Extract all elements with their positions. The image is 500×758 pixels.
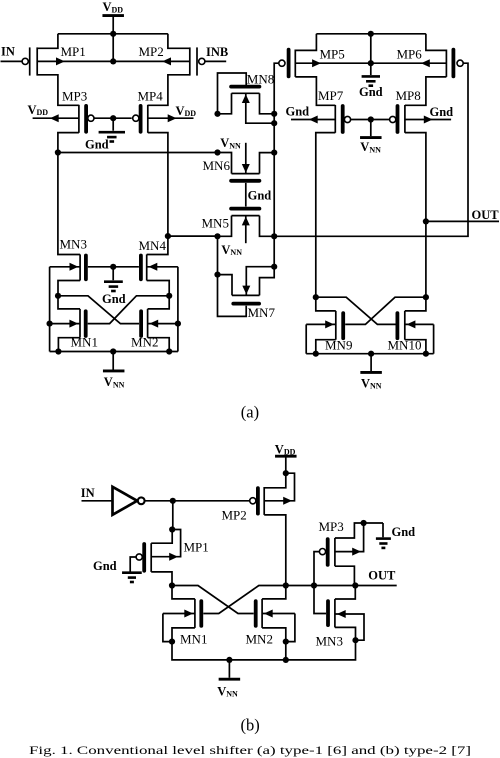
label MP1 (b) [184,539,209,554]
wire MP2 drain to MP4 [148,75,190,106]
wire MP3 drain down (b) [335,566,355,585]
power VNN supply (b) [217,660,240,699]
label MN9 [325,337,352,352]
label MP2 [139,44,164,59]
label MP4 [138,88,164,103]
node OUT terminal label [472,208,500,222]
wire MN6 left stub [218,153,232,174]
wire OUT lead [426,220,499,222]
svg-text:Gnd: Gnd [93,559,117,573]
node MN1 drain junction (b) [169,582,175,588]
svg-text:IN: IN [1,44,15,58]
label MN7 [248,305,276,320]
svg-text:MN5: MN5 [202,215,229,230]
wire MN3 gate link [88,266,113,268]
power VDD supply symbol (top left) [102,0,124,34]
wire MP6 top stub to rail [426,34,447,51]
node MN2 rail junction (b) [283,657,289,663]
label MP2 (b) [222,508,247,523]
wire MP1 drain down (b) [151,572,172,586]
node MN9 drain-rail junction [313,351,319,357]
node OUT junction [423,218,429,224]
wire center column MP5/MP6 sources [370,34,372,63]
node MP3 source junction (b) [361,520,367,526]
wire MN9 drain down [316,340,336,354]
wire MN2 source rail (b) [286,614,295,642]
wire MP5 drain to MP7 [295,77,335,105]
wire inverter output down to MP1 [172,501,174,530]
node MN10 drain junction [423,294,429,300]
transistor MP1 [22,47,37,75]
wire INB lead [205,60,226,62]
wire MN5-MN7 left column [217,236,219,274]
wire MN7 right stub [260,267,275,296]
node MN3 drain junction [55,293,61,299]
transistor MP6 [446,50,463,77]
power VDD supply (b) [275,442,297,473]
wire MN9 source rail [305,324,307,353]
svg-text:MP8: MP8 [396,88,421,103]
wire MN1 top stub [58,296,80,309]
node MP2 source junction (b) [283,470,289,476]
wire MN1 source lead (b) [163,610,195,618]
node MN8 left junction [214,111,220,117]
wire MN1 source rail (b) [163,614,172,642]
node MN9 drain junction [313,294,319,300]
svg-text:MN9: MN9 [325,337,352,352]
wire MN10 source lead [405,320,434,328]
node MP2 drain junction (b) [283,582,289,588]
svg-text:MP1: MP1 [184,539,209,554]
inverter U1 [113,487,145,515]
wire MN3 source lead [50,263,81,271]
label MN10 [388,337,422,352]
ground Gnd label at MP7 source [286,105,310,119]
wire MN10 top stub [405,297,426,311]
wire cross-couple MN4 drain to MN1 gate [88,296,170,324]
wire MP7-MP8 gate link [351,119,390,121]
wire MN6-MN5 gate link [245,183,247,207]
node MP7/MP8 gate junction [368,116,374,122]
wire MP3-MP4 gate link [94,117,132,119]
transistor MN3 [80,254,86,280]
node MN1 source junction [47,321,53,327]
transistor MP1 (b) [136,543,151,572]
wire MP7 source lead [291,116,335,124]
wire cross-couple MN9 drain to MN10 gate [316,297,396,324]
transistor MN8 [231,87,259,94]
wire MN3 gate link (b) [314,586,326,614]
node inverter output junction [170,498,176,504]
power VDD label at MP3 source [28,103,49,117]
wire MP3 top stub (b) [335,523,383,538]
node MP1/MP2 source junction [110,58,116,64]
ground Gnd at MP3 source (b) [376,523,415,548]
label MP8 [396,88,421,103]
svg-text:Gnd: Gnd [286,105,310,119]
wire MN2 drain down (b) [262,628,286,642]
node OUT junction (b) [352,582,358,588]
wire MN4 drain down [147,281,170,296]
svg-text:OUT: OUT [472,208,500,222]
wire right column to MN4 [147,236,168,254]
label MP7 [318,88,344,103]
svg-text:Gnd: Gnd [248,189,272,203]
wire MP1 source lead [37,57,113,65]
svg-text:IN: IN [81,486,95,500]
node VDD-rail junction [110,31,116,37]
wire MN2 drain down [148,338,170,352]
node MN7 drain junction [271,264,277,270]
wire MN5 left stub [218,216,232,237]
node MP3/MP4 gate junction [110,115,116,121]
wire MP3 drain down [58,133,79,153]
svg-text:INB: INB [206,45,228,59]
svg-text:MP1: MP1 [61,44,86,59]
transistor MN4 [141,254,147,280]
node MP5/MP6 source junction [368,60,374,66]
wire MN2 to bottom rail (b) [285,642,287,660]
node IN terminal label (b) [81,486,95,500]
node MN3/MN4 gate junction [110,264,116,270]
ground Gnd label at MP8 source [430,105,454,119]
wire MP3 source lead [33,114,79,122]
label MN2 (b) [246,632,273,647]
wire MP7 drain column down [316,133,336,298]
node MN6 right junction [271,150,277,156]
node MN1 bottom junction (b) [169,639,175,645]
transistor MP2 (b) [250,487,265,515]
svg-text:OUT: OUT [368,569,396,583]
power VNN label at MN6 source [220,136,241,150]
wire right source rail [177,267,179,352]
wire MN9 top stub [316,297,336,311]
power VNN supply (lower right) [360,354,382,391]
wire MN2 top stub [148,296,170,309]
wire MP1 source loop (b) [151,530,180,561]
svg-text:MN10: MN10 [388,337,422,352]
wire MN1 top stub (b) [172,586,195,599]
wire node-A horizontal (MP3 drain to MN6) [58,152,218,154]
wire MN5 source lead [242,216,250,244]
wire left column to MN3 [58,153,80,255]
transistor MP8 [390,105,405,133]
wire MN1 source lead [50,320,80,328]
transistor MN5 [231,209,259,216]
label MN1 [71,335,98,350]
transistor MP2 [190,47,205,75]
transistor MP3 [79,105,94,133]
wire MP8 drain column down [405,133,426,298]
ground Gnd at MP3/MP4 gates [85,118,125,151]
node MP3 drain junction [55,149,61,155]
wire MP4 source lead [148,114,194,122]
power VNN at MP7/MP8 gates [360,120,382,155]
wire MN4 gate link [113,266,139,268]
power VDD label at MP4 source [176,104,197,118]
svg-text:MN2: MN2 [246,632,273,647]
power VNN label at MN5 source [221,243,242,257]
transistor MN2 [141,309,148,338]
wire cross node rail (b) [286,585,356,587]
svg-text:MN8: MN8 [247,72,274,87]
transistor MN3 (b) [328,599,335,627]
node MN2 source junction [175,321,181,327]
wire MN3 drain down (b) [335,627,356,640]
wire OUT lead (b) [355,585,396,587]
svg-text:Gnd: Gnd [85,137,109,151]
wire MN7 gate link [218,275,247,317]
wire MP5 top stub to rail [295,34,316,51]
wire MN2 source lead (b) [262,610,295,618]
node MN8 source junction [271,120,277,126]
label MP5 [320,47,345,62]
wire MN2 top stub (b) [262,586,286,599]
wire MP6 source lead [371,59,447,67]
node OUT terminal label (b) [368,569,396,583]
label MN3 [60,236,87,251]
label MN4 [139,238,167,253]
wire MN3 top stub (b) [335,586,355,600]
node MN3 bottom junction (b) [352,637,358,643]
wire cross-couple MN3 drain to MN2 gate [58,296,139,324]
node MP3 gate junction (b) [311,582,317,588]
wire MP2 drain down (b) [264,515,286,586]
node Gnd-rail junction [368,31,374,37]
label MP1 [61,44,86,59]
wire MP8 source lead [405,116,451,124]
svg-text:Fig. 1. Conventional level s: Fig. 1. Conventional level shifter (a) t… [29,745,471,757]
ground Gnd label at MN6/MN5 gates [248,189,272,203]
svg-text:Gnd: Gnd [102,292,126,306]
wire IN lead (b) [82,500,113,502]
wire MN7 left stub [218,275,233,296]
label MN2 [131,335,158,350]
wire lower-right bottom rail [306,353,433,355]
svg-text:(a): (a) [241,403,259,422]
node VNN tap junction (right) [368,351,374,357]
svg-text:Gnd: Gnd [430,105,454,119]
wire MN2 source lead [148,320,178,328]
label MN1 (b) [180,632,207,647]
wire MP3 source loop (b) [335,523,364,556]
node MN8 right junction [271,111,277,117]
ground Gnd between MP5/MP6 [359,63,383,99]
node MN1 drain-rail junction [55,348,61,354]
node VNN tap junction (left) [110,348,116,354]
ground Gnd at MN3/MN4 gates [102,267,126,306]
transistor MN10 [397,311,404,340]
wire top-left rail [58,33,168,35]
svg-text:MN1: MN1 [180,632,207,647]
svg-text:(b): (b) [241,715,260,734]
wire MN8 left stub [218,93,232,114]
node MN4 drain junction [166,293,172,299]
svg-text:MN6: MN6 [203,158,231,173]
label MP6 [397,47,423,62]
wire center column MP1/MP2 sources [112,34,114,62]
wire inverter output [145,500,250,502]
label MN6 [203,158,231,173]
label MN5 [202,215,229,230]
wire bottom rail (b) [172,640,356,660]
wire MN6 right stub [260,153,275,174]
svg-text:MP2: MP2 [222,508,247,523]
node MN6 left junction [214,149,220,155]
ground Gnd at MP1 gate (b) [93,557,142,582]
wire top-right rail [316,33,426,35]
wire left source rail [49,267,51,352]
caption [29,745,471,757]
node MN2 bottom junction (b) [283,639,289,645]
wire MN5 node to MP6 gate [274,63,468,236]
wire MN3 source lead (b) [335,610,364,640]
svg-text:MN7: MN7 [248,305,276,320]
node MN5 left junction [214,233,220,239]
label (a) [241,403,259,422]
svg-text:Gnd: Gnd [392,525,416,539]
svg-text:MP2: MP2 [139,44,164,59]
svg-text:MP3: MP3 [319,519,344,534]
label (b) [241,715,260,734]
label MP3 (b) [319,519,344,534]
wire cross-couple MP2 drain to MN1 gate (b) [203,586,285,614]
wire MP1 drain to MP3 [37,75,79,106]
transistor MP7 [335,105,350,133]
power VNN supply (lower left) [103,352,125,390]
transistor MN1 (b) [195,599,201,628]
svg-text:MN3: MN3 [316,633,343,648]
wire MN9 source lead [306,320,336,328]
wire MN4 source lead [147,263,178,271]
wire MP5 source lead [295,59,371,67]
svg-text:Gnd: Gnd [359,85,383,99]
wire MP6 drain to MP8 [405,77,447,105]
transistor MN6 [231,174,259,181]
wire MN8 source lead [242,93,274,123]
svg-text:MP6: MP6 [397,47,423,62]
node MN7 left junction [214,272,220,278]
node VNN tap junction (b) [226,657,232,663]
node INB terminal label [206,45,228,59]
wire lower-left bottom rail [50,351,178,353]
node MP1 connection junction [169,526,175,532]
wire MP2 source loop (b) [264,473,294,505]
transistor MP5 [279,50,296,77]
wire MN7 source lead [242,267,274,296]
wire IN lead [1,60,23,62]
node MN10 drain-rail junction [423,351,429,357]
node MP4 drain junction [165,233,171,239]
wire MN10 drain down [405,340,426,354]
wire cross-couple MN10 drain to MN9 gate [345,297,426,324]
svg-text:MP4: MP4 [138,88,164,103]
transistor MP4 [133,105,148,133]
wire MN1 drain down [58,338,80,352]
wire MP2 top stub (b) [264,473,286,488]
svg-text:MN4: MN4 [139,238,167,253]
wire MN8 gate link [218,73,247,114]
node MN2 drain-rail junction [166,348,172,354]
wire MN10 source rail [433,324,435,353]
wire MN3 drain down [58,281,80,296]
wire MP1 top stub to rail [37,34,58,49]
wire MP5 gate column [274,63,279,267]
svg-text:MP3: MP3 [62,88,87,103]
svg-text:MP5: MP5 [320,47,345,62]
label MN3 (b) [316,633,343,648]
wire cross-couple MP1 drain to MN2 gate (b) [172,586,254,614]
node MN5 right junction [271,233,277,239]
transistor MN9 [336,311,343,340]
svg-text:MN3: MN3 [60,236,87,251]
label MP3 [62,88,87,103]
transistor MN2 (b) [256,599,262,628]
transistor MN1 [80,309,86,338]
label MN8 [247,72,274,87]
wire MP2 top stub to rail [168,34,190,49]
wire MP2 source lead [113,57,190,65]
wire MN1 drain down (b) [172,628,195,642]
wire MN5 right stub [260,216,275,237]
wire MP4 drain column down [148,133,168,237]
wire MP4 drain to MN5 node [168,235,218,237]
wire MN6 source lead [242,143,250,174]
wire MP3 gate down (b) [314,552,319,586]
transistor MN7 [232,295,260,303]
node IN terminal label [1,44,15,58]
transistor MP3 (b) [319,538,335,566]
wire MP1 top stub (b) [151,530,172,544]
svg-text:MP7: MP7 [318,88,344,103]
wire MN8 right stub [260,93,275,114]
